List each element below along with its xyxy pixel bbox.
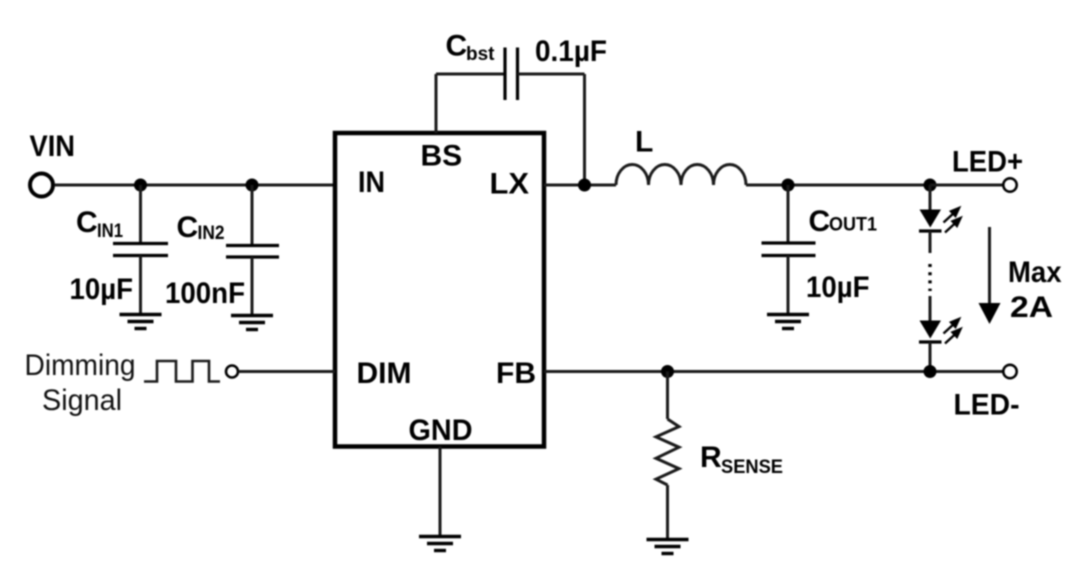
node COUT1 junction xyxy=(782,179,795,192)
wire DIM terminal to DIM pin xyxy=(239,370,336,373)
wire Cbst to LX node xyxy=(583,74,586,185)
svg-text:IN1: IN1 xyxy=(97,221,123,242)
wire LED D2 to bottom xyxy=(929,342,932,372)
svg-text:10µF: 10µF xyxy=(806,271,870,304)
svg-text:BS: BS xyxy=(421,140,463,173)
ground GND pin xyxy=(419,537,461,551)
wire COUT1 bottom xyxy=(787,256,790,314)
dimming square wave xyxy=(144,361,220,382)
LED D1 light arrows xyxy=(944,208,961,233)
LED D2 xyxy=(920,321,942,339)
LED D2 light arrows xyxy=(944,319,961,344)
svg-text:OUT1: OUT1 xyxy=(829,215,877,236)
svg-text:LED+: LED+ xyxy=(952,146,1023,179)
svg-text:IN2: IN2 xyxy=(198,223,225,244)
svg-text:bst: bst xyxy=(466,44,495,65)
svg-text:0.1µF: 0.1µF xyxy=(535,35,607,68)
capacitor COUT1 plates xyxy=(762,241,816,244)
wire COUT1 top xyxy=(787,185,790,242)
wire inductor to output node xyxy=(746,184,930,187)
svg-text:C: C xyxy=(76,206,98,239)
svg-text:L: L xyxy=(635,126,653,159)
svg-text:FB: FB xyxy=(496,357,536,390)
current arrow Max 2A xyxy=(988,227,991,306)
ground RSENSE xyxy=(647,540,689,554)
svg-text:100nF: 100nF xyxy=(165,277,245,310)
wire LX pin to node xyxy=(544,184,616,187)
wire dotted (more LEDs) xyxy=(928,264,931,291)
wire LED D1 to dots xyxy=(929,231,932,253)
svg-text:GND: GND xyxy=(409,414,473,447)
wire RSENSE bottom xyxy=(666,485,669,539)
ground CIN2 xyxy=(231,316,273,330)
node RSENSE junction xyxy=(661,365,674,378)
wire RSENSE top xyxy=(666,372,669,420)
svg-text:10µF: 10µF xyxy=(70,273,134,306)
terminal LED- xyxy=(1003,365,1016,378)
terminal VIN xyxy=(30,174,53,197)
wire FB to LED- terminal xyxy=(544,370,1003,373)
wire to LED+ terminal xyxy=(930,184,1003,187)
node LX xyxy=(578,179,591,192)
wire LED string top xyxy=(929,185,932,210)
svg-text:LED-: LED- xyxy=(954,389,1020,422)
capacitor Cbst plates xyxy=(503,48,506,101)
wire CIN2 bottom xyxy=(251,257,254,316)
svg-text:Dimming: Dimming xyxy=(25,349,136,382)
node VIN/CIN1 junction xyxy=(134,179,147,192)
resistor RSENSE zigzag xyxy=(656,419,679,485)
LED D1 xyxy=(920,210,942,228)
wire dots to LED D2 xyxy=(929,296,932,321)
svg-text:VIN: VIN xyxy=(30,130,76,163)
svg-text:SENSE: SENSE xyxy=(721,457,783,478)
wire GND pin down xyxy=(439,447,442,537)
ground CIN1 xyxy=(120,315,162,329)
IC U1 LED-driver body xyxy=(335,133,544,447)
svg-text:LX: LX xyxy=(490,168,530,201)
terminal LED+ xyxy=(1003,178,1016,191)
svg-text:DIM: DIM xyxy=(357,357,412,390)
inductor L xyxy=(616,165,746,186)
capacitor CIN1 plates xyxy=(113,242,168,245)
svg-text:R: R xyxy=(700,441,722,474)
node LED+ junction xyxy=(924,179,937,192)
wire VIN to IN pin xyxy=(55,184,335,187)
terminal DIM input xyxy=(226,366,238,378)
wire Cbst right xyxy=(518,73,585,76)
ground COUT1 xyxy=(767,315,809,329)
wire Cbst left xyxy=(436,73,505,76)
svg-text:IN: IN xyxy=(358,166,385,199)
node CIN2 junction xyxy=(246,179,259,192)
svg-text:C: C xyxy=(446,30,468,63)
wire BS pin to Cbst xyxy=(435,74,438,133)
svg-text:Signal: Signal xyxy=(42,384,122,417)
wire CIN2 top xyxy=(251,185,254,245)
svg-text:C: C xyxy=(177,211,199,244)
node LED string bottom junction xyxy=(924,365,937,378)
svg-text:2A: 2A xyxy=(1010,291,1053,324)
svg-text:Max: Max xyxy=(1008,256,1062,289)
capacitor CIN2 plates xyxy=(226,244,279,247)
svg-text:C: C xyxy=(809,205,831,238)
wire CIN1 top xyxy=(139,185,142,243)
wire CIN1 bottom xyxy=(139,256,142,315)
